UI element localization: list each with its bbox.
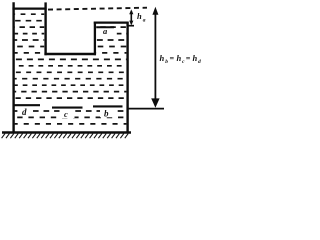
svg-text:d: d xyxy=(198,59,201,65)
point d marker xyxy=(14,104,41,106)
h_b dimension arrow xyxy=(151,7,159,108)
liquid dashes xyxy=(0,14,210,124)
svg-text:b: b xyxy=(165,59,168,65)
svg-text:h: h xyxy=(193,53,198,63)
right chamber top xyxy=(94,22,129,24)
halo behind point d label xyxy=(18,107,33,117)
h_a tick line xyxy=(128,25,134,27)
svg-text:h: h xyxy=(177,53,182,63)
ground hatching xyxy=(2,134,5,139)
h_a dimension arrow xyxy=(129,9,133,25)
halo behind point c label xyxy=(60,109,75,118)
notch left wall xyxy=(44,2,46,55)
halo behind point a label xyxy=(98,28,113,37)
svg-text:h: h xyxy=(137,11,142,21)
svg-text:d: d xyxy=(22,107,27,117)
svg-text:c: c xyxy=(64,109,68,119)
svg-text:=: = xyxy=(186,54,191,63)
svg-text:h: h xyxy=(160,53,165,63)
svg-text:b: b xyxy=(104,109,109,119)
notch right wall xyxy=(94,22,96,56)
svg-text:=: = xyxy=(170,54,175,63)
svg-text:a: a xyxy=(143,18,146,24)
point c marker xyxy=(52,107,83,109)
b/c/d reference ledge xyxy=(127,108,164,110)
tank right wall xyxy=(126,22,128,133)
tank left wall xyxy=(12,2,14,133)
halo behind point b label xyxy=(100,108,115,118)
notch bottom xyxy=(44,53,96,55)
surface reference dashed line xyxy=(48,8,147,10)
liquid surface line xyxy=(12,8,46,10)
point a marker xyxy=(96,26,114,28)
ground line xyxy=(2,131,131,134)
point b marker xyxy=(93,105,123,107)
